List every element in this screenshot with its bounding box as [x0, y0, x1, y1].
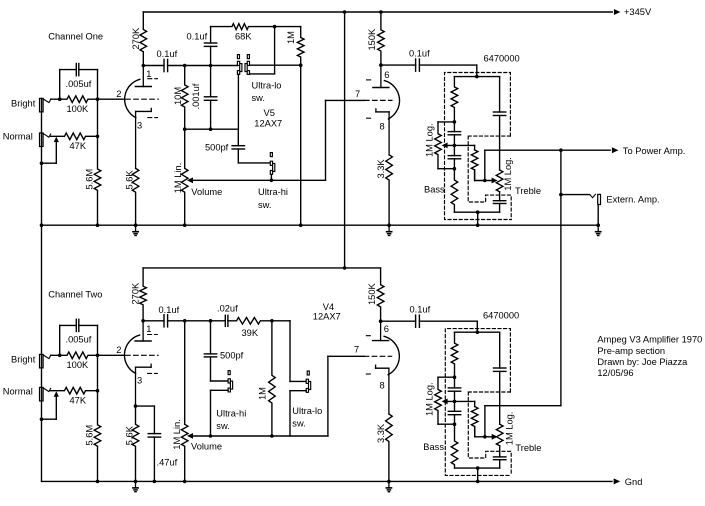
- label 5.6M ch1: [85, 169, 95, 190]
- wire normal contact arm ch2: [42, 391, 59, 419]
- tube V5 triode-B cathode: [376, 109, 389, 155]
- svg-text:Pre-amp section: Pre-amp section: [597, 346, 665, 356]
- switch Ultra-hi ch2: [228, 371, 232, 392]
- switch Ultra-lo ch1 pole B: [245, 55, 250, 75]
- label To Power Amp.: [623, 146, 686, 156]
- tone stack outer dashed box ch1: [445, 73, 512, 220]
- svg-text:1: 1: [146, 324, 151, 334]
- wire 100K-47K link ch2: [97, 355, 99, 390]
- label Bright ch2: [11, 355, 36, 365]
- potentiometer 1M Lin Volume ch1: [181, 129, 188, 225]
- label pin 1 V4: [146, 324, 151, 334]
- resistor 47K ch2: [51, 387, 98, 394]
- svg-text:.001uf: .001uf: [191, 83, 201, 109]
- tube V5 triode-B plate: [373, 65, 389, 87]
- svg-text:1M Log.: 1M Log.: [504, 412, 514, 446]
- node 3.3K-bus junction ch1: [387, 223, 391, 227]
- label pin 6 V5: [384, 70, 389, 80]
- label sw. ultra-lo ch2: [292, 418, 305, 428]
- svg-text:100K: 100K: [67, 104, 90, 114]
- wire 68K row ch1: [211, 24, 301, 30]
- potentiometer 1M Log Treble ch1: [496, 170, 503, 192]
- ground symbol 5.6K ch2: [133, 481, 138, 491]
- label 500pf ch2: [220, 351, 244, 361]
- wire stack bottom ch1: [454, 211, 499, 213]
- svg-text:270K: 270K: [131, 27, 141, 50]
- resistor 270K ch2: [140, 268, 147, 321]
- capacitor treble bottom ch2: [494, 446, 506, 468]
- label 270K ch1: [131, 27, 141, 50]
- label 100K ch1: [67, 104, 90, 114]
- node output tap ch1: [483, 179, 487, 183]
- label 1M Log. treble ch2: [504, 412, 514, 446]
- label pin 7 V4: [354, 344, 359, 354]
- node grid V4 pin2 junction: [96, 354, 100, 358]
- svg-text:sw.: sw.: [258, 200, 271, 210]
- tube V5 triode-A plate: [135, 66, 151, 87]
- label sw. ultra-hi ch2: [216, 421, 229, 431]
- wire treble wiper row ch2: [475, 427, 495, 437]
- node bass wiper tap ch1: [453, 144, 457, 148]
- svg-text:3.3K: 3.3K: [376, 159, 386, 179]
- wire normal contact arm ch1: [42, 137, 59, 164]
- resistor 5.6K ch1: [132, 168, 139, 225]
- wire output tap riser ch2: [484, 406, 486, 437]
- svg-text:1M Log.: 1M Log.: [424, 382, 434, 416]
- node 500pf branch junction ch2: [209, 319, 213, 323]
- node .001uf bottom junction ch1: [209, 127, 213, 131]
- ground symbol 3.3K ch1: [387, 225, 392, 235]
- tube V4 triode-B cathode: [376, 365, 389, 414]
- node stack bottom junction ch1: [476, 210, 480, 214]
- node bass top tap ch2: [453, 375, 457, 379]
- capacitor stack-left mid2 ch1: [448, 145, 460, 168]
- node output mix junction: [559, 148, 563, 152]
- tube V4 triode-B envelope arc: [366, 336, 399, 375]
- svg-text:7: 7: [354, 344, 359, 354]
- node contact arm junction ch2: [40, 417, 44, 421]
- node bass bottom tap ch2: [453, 422, 457, 426]
- label Treble ch1: [515, 186, 541, 196]
- node extern amp junction: [559, 193, 563, 197]
- tube V4 triode-A grid: [126, 354, 159, 356]
- label Ultra-hi ch1: [258, 187, 288, 197]
- svg-text:V5: V5: [264, 108, 275, 118]
- resistor 1M ch2: [269, 321, 276, 436]
- wire chan2 feed: [143, 267, 381, 269]
- wire wiper row ch1: [190, 100, 325, 180]
- potentiometer 1M Log Bass ch2: [435, 377, 455, 424]
- label Ultra-hi ch2: [216, 408, 246, 418]
- svg-text:1M Log.: 1M Log.: [424, 123, 434, 157]
- wire rail drop to chan2: [344, 12, 346, 268]
- node stack entry ch1: [475, 75, 479, 79]
- svg-text:Channel One: Channel One: [48, 31, 103, 41]
- svg-text:Bright: Bright: [11, 99, 36, 109]
- svg-text:+345V: +345V: [624, 7, 652, 17]
- svg-text:Drawn by: Joe Piazza: Drawn by: Joe Piazza: [597, 357, 688, 367]
- resistor stack-left lower ch2: [451, 424, 458, 468]
- label pin 7 V5: [355, 89, 360, 99]
- potentiometer 1M Log Bass ch1: [435, 122, 455, 169]
- resistor 5.6K ch2: [132, 406, 139, 481]
- resistor 3.3K ch1: [386, 155, 393, 225]
- label +345V: [624, 7, 652, 17]
- capacitor .02uf ch2: [225, 315, 228, 326]
- tone stack outer dashed box ch2: [445, 329, 511, 476]
- tube V5 triode-B envelope arc: [367, 80, 400, 119]
- node cathode branch junction ch2: [134, 404, 138, 408]
- jack Normal ch2: [40, 387, 51, 401]
- node 5.6M-bus junction ch2: [96, 480, 100, 484]
- ground symbol 5.6K ch1: [133, 225, 138, 235]
- wire grid row ch2: [98, 354, 125, 356]
- label 1M ch2: [258, 387, 268, 400]
- wire extern jack ground lead: [597, 205, 599, 226]
- node rail-chan2 feed junction: [343, 10, 347, 14]
- capacitor 0.1uf plate-coupling ch1: [143, 59, 184, 71]
- label pin 6 V4: [384, 324, 389, 334]
- wire ultra-lo poleA drop ch1: [237, 74, 239, 129]
- wire cathode cap branch ch2: [136, 406, 155, 434]
- ground symbol extern amp: [596, 225, 601, 235]
- svg-text:3: 3: [137, 121, 142, 131]
- label 10M ch1: [173, 87, 183, 105]
- tube V4 triode-A cathode: [136, 364, 152, 406]
- svg-text:0.1uf: 0.1uf: [157, 49, 178, 59]
- label 1M ch1: [286, 31, 296, 44]
- svg-text:.005uf: .005uf: [66, 335, 92, 345]
- wiper arrow Treble ch2: [492, 434, 498, 440]
- svg-text:sw.: sw.: [292, 418, 305, 428]
- node 3.3K-bus junction ch2: [387, 480, 391, 484]
- svg-text:To Power Amp.: To Power Amp.: [623, 146, 686, 156]
- node stack entry ch2: [476, 330, 480, 334]
- label Normal ch1: [3, 132, 33, 142]
- resistor 10M ch1: [181, 66, 188, 130]
- tube V4 triode-B plate: [373, 321, 389, 340]
- capacitor stack-left mid1 ch2: [448, 377, 460, 401]
- svg-text:6470000: 6470000: [483, 310, 519, 320]
- node stack bottom junction ch2: [476, 466, 480, 470]
- tube V4 triode-A plate: [135, 321, 151, 341]
- svg-text:12AX7: 12AX7: [313, 311, 341, 321]
- svg-text:Ultra-hi: Ultra-hi: [258, 187, 288, 197]
- jack Bright ch2: [40, 354, 51, 368]
- wiper arrow Bass ch2: [442, 399, 448, 405]
- label 1M Lin. ch2: [172, 419, 182, 450]
- label pin 8 V5: [380, 122, 385, 132]
- capacitor 0.1uf ultra-lo ch1: [204, 27, 216, 66]
- svg-text:Volume: Volume: [191, 442, 222, 452]
- resistor 100K ch2: [51, 352, 98, 359]
- resistor 5.6M ch1: [94, 136, 101, 225]
- capacitor treble bottom ch1: [493, 192, 505, 212]
- node 1M-bus junction ch1: [299, 223, 303, 227]
- wire row1 right ch2: [272, 321, 290, 382]
- node contact arm junction ch1: [40, 161, 44, 165]
- capacitor .005uf ch2: [60, 319, 98, 355]
- wire bass wiper to mid resistor ch2: [445, 401, 475, 406]
- node grid V5 pin2 junction: [96, 97, 100, 101]
- label 12AX7 ch1: [254, 119, 282, 129]
- label 47K ch2: [70, 395, 87, 405]
- label 6470000 ch2: [483, 310, 519, 320]
- wire ground bus ch2 Gnd: [42, 478, 621, 484]
- svg-text:Gnd: Gnd: [625, 477, 643, 487]
- svg-text:5.6K: 5.6K: [125, 170, 135, 190]
- node 5.6K-bus junction ch2: [134, 480, 138, 484]
- wire 1M to ground bus ch1: [300, 65, 302, 225]
- wire grid row V5B: [326, 99, 365, 101]
- resistor stack-left upper ch2: [451, 332, 458, 377]
- capacitor 0.1uf plate-coupling ch2: [143, 315, 185, 327]
- svg-text:6470000: 6470000: [484, 53, 520, 63]
- svg-text:47K: 47K: [70, 395, 87, 405]
- node 1M top junction ch2: [270, 319, 274, 323]
- ground symbol 3.3K ch2: [386, 481, 391, 491]
- switch Ultra-lo ch2: [306, 371, 311, 392]
- label pin 8 V4: [380, 381, 385, 391]
- wire To Power Amp ch1: [485, 147, 619, 153]
- svg-text:1M Lin.: 1M Lin.: [173, 163, 183, 194]
- wire row1 mid ch2: [185, 320, 226, 322]
- resistor stack-mid ch1: [471, 150, 478, 181]
- label Ultra-lo ch2: [292, 406, 322, 416]
- label title line2: [597, 346, 665, 356]
- node plate V4 pin1: [141, 319, 145, 323]
- label pin 1 V5: [146, 69, 151, 79]
- wire extern amp branch: [561, 194, 590, 196]
- wire stack right chain ch1: [493, 77, 505, 170]
- wire output mix row ch2: [485, 405, 561, 407]
- svg-text:1M Log.: 1M Log.: [503, 157, 513, 191]
- tube V4 triode-A envelope arc: [124, 335, 157, 374]
- label .02uf ch2: [217, 304, 238, 314]
- svg-text:0.1uf: 0.1uf: [159, 305, 180, 315]
- resistor 5.6M ch2: [94, 391, 101, 482]
- wire stack top ch2: [455, 331, 500, 333]
- wire output mix drop: [560, 150, 562, 406]
- node bass top tap ch1: [453, 120, 457, 124]
- label pin 2 V5: [116, 89, 121, 99]
- tube V4 triode-B grid: [364, 355, 391, 357]
- node ultra-hi wiper junction ch1: [270, 179, 274, 183]
- svg-text:5.6K: 5.6K: [124, 425, 134, 445]
- label V5: [264, 108, 275, 118]
- svg-text:1: 1: [146, 69, 151, 79]
- label title line4: [597, 368, 633, 378]
- resistor 47K ch1: [51, 133, 98, 140]
- label 150K ch2: [367, 282, 377, 305]
- svg-text:47K: 47K: [70, 141, 87, 151]
- wire ultra-lo poleB lower ch1: [250, 27, 275, 74]
- label Channel Two: [48, 290, 102, 300]
- node bass wiper tap ch2: [453, 400, 457, 404]
- svg-text:500pf: 500pf: [205, 142, 229, 152]
- label Volume ch2: [191, 442, 222, 452]
- wire grid row V4B: [328, 355, 364, 357]
- node 1M bottom junction ch1: [299, 63, 303, 67]
- node 10M top junction: [183, 64, 187, 68]
- svg-text:0.1uf: 0.1uf: [409, 49, 430, 59]
- wire stack bottom ch2: [455, 467, 500, 469]
- svg-text:Ultra-lo: Ultra-lo: [252, 80, 282, 90]
- label 500pf ch1: [205, 142, 229, 152]
- wire stack ground drop ch1: [477, 212, 479, 225]
- label 150K ch1: [367, 28, 377, 51]
- svg-text:Channel Two: Channel Two: [48, 290, 102, 300]
- label Volume ch1: [191, 187, 222, 197]
- resistor stack-mid ch2: [471, 407, 478, 437]
- label title line3: [597, 357, 688, 367]
- label 39K ch2: [242, 328, 259, 338]
- wiper arrow Treble ch1: [492, 178, 498, 184]
- label Normal ch2: [3, 387, 33, 397]
- svg-text:68K: 68K: [235, 31, 252, 41]
- label Bright ch1: [11, 99, 36, 109]
- resistor 150K ch1: [378, 12, 385, 65]
- switch Ultra-hi ch1: [270, 153, 275, 175]
- label 270K ch2: [131, 282, 141, 305]
- label 3.3K ch2: [376, 423, 386, 443]
- wire input left bus ch1: [41, 98, 43, 225]
- label 68K ch1: [235, 31, 252, 41]
- resistor stack-left lower ch1: [451, 169, 458, 213]
- label Treble ch2: [515, 443, 541, 453]
- svg-text:150K: 150K: [367, 28, 377, 51]
- resistor 39K ch2: [228, 318, 272, 325]
- svg-text:Volume: Volume: [191, 187, 222, 197]
- capacitor .005uf ch1: [60, 64, 98, 100]
- capacitor 0.1uf output ch1: [381, 59, 477, 77]
- node volume top junction ch2: [183, 319, 187, 323]
- node 5.6M-bus junction ch1: [96, 223, 100, 227]
- svg-text:Extern. Amp.: Extern. Amp.: [606, 195, 659, 205]
- svg-text:Normal: Normal: [3, 387, 33, 397]
- svg-text:3.3K: 3.3K: [376, 423, 386, 443]
- label Ultra-lo ch1: [252, 80, 282, 90]
- svg-text:150K: 150K: [367, 282, 377, 305]
- svg-text:1M: 1M: [258, 387, 268, 400]
- label 0.1uf output ch1: [409, 49, 430, 59]
- label 100K ch2: [67, 360, 90, 370]
- wire treble wiper row ch1: [475, 170, 495, 181]
- wire row1 mid ch1: [185, 65, 238, 67]
- wiper arrow Bass ch1: [442, 143, 448, 149]
- wire stack ground drop ch2: [477, 468, 479, 481]
- wire ultra-lo poleB upper ch1: [250, 64, 301, 66]
- label V4: [323, 302, 334, 312]
- label 6470000 ch1: [484, 53, 520, 63]
- wire ultra-hi lead ch1: [270, 175, 272, 181]
- jack Extern Amp: [590, 194, 601, 204]
- label 1M Log. treble ch1: [503, 157, 513, 191]
- svg-text:sw.: sw.: [216, 421, 229, 431]
- capacitor .47uf ch2: [148, 434, 160, 482]
- node extern-bus junction: [596, 223, 600, 227]
- tube V5 triode-A cathode: [136, 108, 152, 168]
- resistor 270K ch1: [140, 12, 147, 66]
- node chan2 feed junction: [343, 266, 347, 270]
- svg-text:5.6M: 5.6M: [85, 425, 95, 446]
- svg-text:2: 2: [116, 345, 121, 355]
- label .001uf ch1: [191, 83, 201, 109]
- wire row2 ch1: [185, 128, 239, 130]
- svg-text:10M: 10M: [173, 87, 183, 105]
- svg-text:Ultra-hi: Ultra-hi: [216, 408, 246, 418]
- wire 500pf to ultra-hi ch2: [211, 380, 229, 382]
- svg-text:Bright: Bright: [11, 355, 36, 365]
- label pin 3 V5: [137, 121, 142, 131]
- tube V5 triode-A envelope arc: [125, 79, 158, 118]
- svg-text:7: 7: [355, 89, 360, 99]
- svg-text:Ampeg V3 Amplifier 1970: Ampeg V3 Amplifier 1970: [597, 334, 702, 344]
- wire bass wiper to mid resistor ch1: [445, 145, 475, 150]
- label Extern. Amp.: [606, 195, 659, 205]
- wiper arrow Volume ch1: [187, 177, 193, 183]
- wire output tap riser ch1: [484, 150, 486, 180]
- wire input left bus ch2 link: [41, 225, 43, 481]
- svg-text:1M: 1M: [286, 31, 296, 44]
- svg-text:0.1uf: 0.1uf: [410, 304, 431, 314]
- resistor 150K ch2: [377, 268, 384, 321]
- svg-text:Ultra-lo: Ultra-lo: [292, 406, 322, 416]
- label sw. ultra-lo ch1: [252, 93, 265, 103]
- label 5.6K ch1: [125, 170, 135, 190]
- label .005uf ch1: [66, 79, 92, 89]
- node 47K junction ch2: [96, 389, 100, 393]
- jack Bright ch1: [40, 98, 51, 112]
- wire stack right chain ch2: [494, 332, 506, 424]
- label Bass ch2: [423, 442, 444, 452]
- node volume-bus junction ch2: [183, 480, 187, 484]
- node output tap ch2: [483, 435, 487, 439]
- resistor stack-left upper ch1: [451, 77, 458, 122]
- node stack-bus junction ch1: [476, 223, 480, 227]
- svg-text:6: 6: [384, 324, 389, 334]
- jack Normal ch1: [40, 133, 51, 147]
- wire grid row ch1: [98, 98, 125, 100]
- label Bass ch1: [424, 185, 445, 195]
- svg-text:100K: 100K: [67, 360, 90, 370]
- svg-text:Normal: Normal: [3, 132, 33, 142]
- resistor 1M ch1: [297, 27, 304, 66]
- svg-text:8: 8: [380, 381, 385, 391]
- node 10M-volume junction ch1: [183, 127, 187, 131]
- switch Ultra-lo ch1 pole A: [237, 55, 242, 75]
- capacitor 500pf ch2: [204, 321, 216, 381]
- wire ultra-lo upper ch2: [290, 380, 306, 382]
- wiper arrow Volume ch2: [187, 433, 193, 439]
- label 5.6M ch2: [85, 425, 95, 446]
- svg-text:.005uf: .005uf: [66, 79, 92, 89]
- capacitor 500pf ch1: [232, 129, 244, 163]
- label 1M Log. bass ch1: [424, 123, 434, 157]
- node 47K junction ch1: [96, 135, 100, 139]
- svg-text:12/05/96: 12/05/96: [597, 368, 633, 378]
- svg-text:sw.: sw.: [252, 93, 265, 103]
- potentiometer 1M Log Treble ch2: [496, 424, 503, 446]
- label Gnd: [625, 477, 643, 487]
- wire 500pf to ultra-hi ch1: [238, 162, 270, 164]
- label 3.3K ch1: [376, 159, 386, 179]
- capacitor 0.1uf output ch2: [381, 315, 478, 332]
- node 5.6K-bus junction ch1: [134, 223, 138, 227]
- node plate V5 pin6: [379, 63, 383, 67]
- capacitor stack-left mid1 ch1: [448, 122, 460, 145]
- wire ultra-lo lower ch2: [290, 391, 306, 436]
